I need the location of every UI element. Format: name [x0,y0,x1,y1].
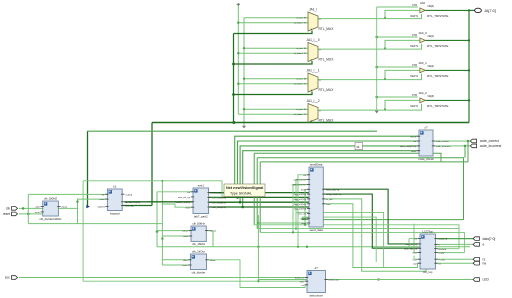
module debouncer [295,266,339,297]
svg-text:RTL_TRISTATE: RTL_TRISTATE [427,44,448,48]
wire: clk_divider2 clkout run [207,260,308,288]
svg-text:reset: reset [183,264,188,267]
svg-text:data[7:0]: data[7:0] [439,238,448,241]
wire: srst1 num_out0 to code_check fan line 1 [209,136,419,192]
wire: code_incorrect vertical loop x=465 [464,146,466,158]
net stub cap at top of x=238.3 [237,3,240,6]
wire: JA net vertical bus x=469 [468,10,470,122]
svg-text:code_correct: code_correct [293,179,306,182]
wire: medium horizontal y=131.2 (bus to keypad new_val) [88,130,378,132]
wire: tristate1 output to JA bus [425,9,469,11]
svg-text:lab7_part2: lab7_part2 [194,214,208,218]
svg-text:delay_out[21:0]: delay_out[21:0] [326,193,341,196]
svg-text:data_in[7:0]: data_in[7:0] [406,243,418,246]
wire: mux1 output to tristate1 OE [318,14,422,19]
wire: keypad new_sig output to x=152 riser [122,205,152,207]
wire: reset feed to sendData reset [258,222,309,224]
module code_check [400,125,451,160]
module clk_16khz [182,221,216,246]
gray continuation arrow at (244,126) [242,126,246,129]
wire: JA bus to port JA[7:0] [469,9,475,11]
wire: to clk_divider2 clkin [162,259,190,261]
svg-text:JA[7:0]: JA[7:0] [484,9,496,13]
wire: tristate1 data input jog at x=385 [385,10,420,17]
wire: trunk x=162.4 [161,181,163,265]
wire: net vertical feeder x=238.3 (mux lower inputs) [237,5,239,114]
svg-text:JA1_i__1: JA1_i__1 [306,69,320,73]
wire: riser x=77.5 [77,199,79,224]
wire: y=194.4 to keypad clk [28,193,107,195]
wire: y=223.6 reset run to east [28,223,162,225]
mux RTL_MUX JA1_i__2 [294,99,334,122]
wire: lcd reset riser (approx) [413,224,415,253]
svg-text:ready: ready [301,217,307,220]
wire: mux3 upper input I0 [244,78,308,80]
wire: fan vertical 7 [259,162,261,233]
svg-text:io_out: io_out [297,47,303,50]
svg-text:srst1: srst1 [198,183,205,187]
input port clk [6,207,18,211]
wire: lcd ready stub [436,252,465,254]
svg-text:key_in4[3:0]: key_in4[3:0] [294,209,306,211]
wire: tristate2 output to JA bus [425,39,469,41]
wire: CTRL distribution vertical x=376.7 [376,7,378,111]
svg-text:clkin: clkin [35,207,40,209]
wire: lcd reset stub [414,252,420,254]
wire: clk_16khz clk_out stub [206,230,213,232]
svg-text:OE[3]: OE[3] [428,95,435,98]
wire: net vertical feeder x=244 (mux upper inputs) [243,18,245,126]
svg-text:OE[2]: OE[2] [428,65,435,68]
wire: lcd e to port [436,243,474,245]
svg-text:io_out: io_out [297,78,303,81]
svg-text:clk 100HZ: clk 100HZ [44,196,57,200]
svg-text:finish: finish [301,189,307,191]
svg-text:reset: reset [100,198,105,201]
module clk_divider100Hz [35,196,68,220]
svg-text:io_out: io_out [297,108,303,111]
wire stub [162,264,175,266]
wire: tristate3 data input jog at x=385 [385,70,420,78]
blue continuation arrow into keypad new_val input [86,205,90,209]
svg-text:O: O [319,19,321,21]
wire: fan line 6 to ready loop riser [257,158,463,220]
wire: lcd data[7:0] to port [436,238,474,240]
wire: tristate4 CTRL input [377,96,418,98]
svg-text:clk_1kOut: clk_1kOut [192,249,205,253]
svg-text:LED: LED [483,278,490,282]
wire: y=180.8 run [83,180,222,182]
svg-text:OE[0]: OE[0] [428,5,435,8]
wire: mux2 upper input I0 [244,47,308,49]
wire: srst1 new_val_sig drop [193,181,222,197]
output port LED [473,278,489,282]
svg-text:num_out3[3:0]: num_out3[3:0] [212,206,226,209]
wire: lcd finished loop run y=224.8 [254,225,459,249]
wire: long clk run y=246.7 [157,246,470,248]
wire: reset port to clk_divider reset [19,213,43,215]
svg-text:16: 16 [356,145,360,149]
wire: srst1 num_out3 to code_check fan line 4 [209,151,419,207]
svg-text:code_incorrect: code_incorrect [480,144,502,148]
svg-text:button_in: button_in [295,277,305,280]
svg-text:code_check: code_check [418,157,434,161]
wire: loop back to sendData code_correct input [296,180,309,229]
svg-text:JA0_2: JA0_2 [418,91,427,95]
output port rs [473,257,485,261]
wire: lcd rs_out to rs port [436,258,474,260]
wire: LED long net y=279.5 [258,279,473,281]
svg-text:RTL_TRISTATE: RTL_TRISTATE [427,14,448,18]
svg-text:num_out[3:0]: num_out[3:0] [212,192,225,195]
wire: mux2 output to tristate2 OE [318,44,422,49]
svg-text:key_in3[3:0]: key_in3[3:0] [294,204,306,206]
tristate RTL_TRISTATE JA0 [410,1,448,18]
svg-text:reset: reset [301,222,306,225]
svg-text:num_out1[3:0]: num_out1[3:0] [212,197,226,200]
wire: keypad decodeOut bus to srst1 number_in [124,201,193,203]
bus width annotation 16 on input_code net [355,143,363,150]
wire: ready loopback run y=232.4 [260,232,464,252]
svg-text:key_in1[3:0]: key_in1[3:0] [294,194,306,196]
svg-text:RTL_MUX: RTL_MUX [319,118,335,122]
svg-text:vis[3:0]: vis[3:0] [125,194,132,196]
output port data[7:0] [473,237,495,241]
svg-text:LCDTop: LCDTop [423,229,434,233]
wire: clk port to clk_divider clkin [19,207,43,209]
wire: fan vertical 5 [253,153,255,225]
svg-text:send_data: send_data [309,228,323,232]
tristate RTL_TRISTATE JA0_1 [410,61,448,78]
wire: srst1 reset input [162,204,193,207]
wire: left trunk x=83.1 [82,181,84,281]
svg-text:CTR: CTR [412,64,417,67]
wire: mux3 select S (dark bus) [234,92,313,95]
wire: dark vertical x=87.5 to keypad new_val input [87,131,89,206]
svg-text:rst: rst [302,284,305,287]
wire: code_check code_correct to port [433,140,470,142]
wire: srst1 num_out2 bus to sendData key_in2 [209,201,309,203]
wire: long run y=228.6 [257,228,459,230]
svg-text:io_out: io_out [297,17,303,20]
wire: lcd clk to y=246.7 run [408,239,410,247]
svg-text:clk_divider100Hz: clk_divider100Hz [40,217,63,221]
wire: srst1 num_out2 to code_check fan line 3 [209,146,419,202]
wire: loop line y=217.1 [302,217,376,262]
wire: srst1 num_out3 bus to sendData key_in3 [209,206,309,208]
svg-text:code_correct: code_correct [436,140,449,143]
svg-text:data[7:0]: data[7:0] [483,237,496,241]
svg-text:clk: clk [6,207,10,211]
svg-text:reset: reset [412,252,417,255]
tristate RTL_TRISTATE JA0_0 [410,31,448,48]
svg-text:reset: reset [183,235,188,238]
wire: mux1 lower input I1 [238,22,308,24]
wire: srst1 clk feed [157,191,193,193]
svg-text:io_select: io_select [294,22,303,25]
svg-text:rs_in: rs_in [412,258,418,261]
wire: lcd rw to rw port [436,262,474,264]
svg-text:clk_divider: clk_divider [192,270,206,274]
svg-text:code_incorrect: code_incorrect [292,184,307,187]
svg-text:num_out2[3:0]: num_out2[3:0] [212,201,226,204]
wire: mux1 select S (dark bus) [234,31,313,34]
wire: JA net horizontal y=122.5 spanning to keypad region [152,122,469,124]
svg-text:code_incorrect: code_incorrect [436,145,451,148]
wire: srst1 num_out1 bus to sendData key_in1 [209,196,309,198]
svg-text:number_in[3:0]: number_in[3:0] [175,201,190,204]
wire: mux2 lower input I1 [238,52,308,54]
svg-text:clkin: clkin [300,281,305,283]
output port e [473,243,484,247]
svg-text:ready: ready [439,252,445,255]
svg-text:keep_in[15:0]: keep_in[15:0] [404,248,418,250]
wire: lcd rs_in stub [414,258,420,260]
wire: srst1 num_out0 bus to sendData key_in0 [209,192,309,194]
wire: soc to debouncer button_in [19,277,307,279]
tooltip Net newVisionSignal [224,184,265,197]
wire: mux3 lower input I1 [238,83,308,85]
wire: loop back to sendData ready input [302,218,464,219]
wire: tristate4 output to JA bus [425,99,469,101]
svg-text:O: O [319,50,321,52]
wire: loop line y=212.4 [296,212,384,267]
wire: trunk x=258.4 [257,215,259,281]
svg-text:reset: reset [411,150,416,153]
svg-text:decodeOut[3:0]: decodeOut[3:0] [125,201,140,204]
module lcd_top [404,229,448,273]
wire: clk feed to sendData clk [298,175,309,247]
svg-text:Net newVisionSignal: Net newVisionSignal [226,186,263,190]
svg-text:OEP N: OEP N [410,15,418,18]
output port code_correct [470,139,499,143]
mux RTL_MUX JA1_i__1 [294,69,334,92]
svg-text:keypad: keypad [110,211,120,215]
wire: fan line 5 loop [254,153,441,162]
svg-text:io_select: io_select [294,83,303,86]
wire: mux1 upper input I0 [244,17,308,19]
wire: sendData delay_out bus to lcd keep_in [323,194,420,248]
wire: tristate3 output to JA bus [425,69,469,71]
svg-text:input_code[15:0]: input_code[15:0] [400,145,417,148]
svg-text:JA1_i__2: JA1_i__2 [306,99,320,103]
svg-text:val[3:0]: val[3:0] [97,207,104,209]
wire: fan line 7 / code_correct loop horizontal [260,161,468,163]
inout port JA[7:0] [475,8,496,13]
input port soc [5,276,18,280]
wire: clk_divider clkout to keypad reset row [58,199,107,208]
svg-text:e: e [483,243,485,247]
svg-text:clkin: clkin [183,260,188,262]
svg-text:Type SIGNAL: Type SIGNAL [230,192,252,196]
svg-text:clk 16kHz: clk 16kHz [192,221,205,225]
svg-text:JA0_0: JA0_0 [418,31,427,35]
wire: mux4 upper input I0 [244,108,308,110]
wire: mux select vertical bus x=233.5 (dark) [233,34,235,123]
module keypad k1 [97,184,140,215]
mux RTL_MUX JA1_i [294,8,334,31]
svg-text:new_sig: new_sig [125,206,134,208]
svg-text:new_val: new_val [298,214,307,216]
wire: tristate1 CTRL input [377,6,418,8]
svg-text:code_correct: code_correct [480,139,499,143]
mux RTL_MUX JA1_i__0 [294,38,334,61]
svg-text:JA0_1: JA0_1 [418,61,427,65]
wire: to clk_16khz clk_in [157,230,191,232]
svg-text:reset: reset [3,212,10,216]
wire: rs_in stub riser [413,256,415,260]
svg-text:clk_out: clk_out [209,230,216,233]
svg-text:data_out[7:0]: data_out[7:0] [326,188,339,191]
wire: dark vertical x=152 down to keypad new_sig [151,123,153,206]
tristate RTL_TRISTATE JA0_2 [410,91,448,108]
wire: srst1 num_out1 to code_check fan line 2 [209,141,419,197]
svg-text:start: start [413,262,418,265]
svg-text:clk_in: clk_in [182,231,188,233]
svg-text:CTR: CTR [412,4,417,7]
wire: tristate3 CTRL input [377,66,418,68]
svg-text:CTR: CTR [412,34,417,37]
svg-text:JA1_i__0: JA1_i__0 [306,38,320,42]
svg-text:sendData: sendData [310,162,323,166]
svg-text:d?: d? [315,266,319,270]
svg-text:finished: finished [439,249,447,251]
wire: to clk_16khz reset [162,235,191,237]
svg-text:clk_16khz: clk_16khz [192,242,205,246]
wire: y=281.2 run to debouncer clkin [83,280,307,282]
wire: lcd clk stub west [409,238,420,240]
svg-text:RTL_MUX: RTL_MUX [319,88,335,92]
svg-text:button_out: button_out [329,279,340,282]
output port code_incorrect [470,144,501,148]
svg-text:RTL_TRISTATE: RTL_TRISTATE [427,74,448,78]
wire: code_check code_incorrect to port [433,145,470,147]
input port reset [3,212,18,216]
svg-text:RTL_MUX: RTL_MUX [319,57,335,61]
output port rw [473,261,486,265]
svg-text:O: O [319,80,321,82]
module clk_divider (1k) [183,249,216,274]
wire: mux4 output to tristate4 OE [318,104,422,110]
module lab7_part2 srst1 [175,183,226,218]
wire: tristate4 data input jog at x=385 [385,100,420,109]
svg-text:clkout: clkout [210,259,216,262]
wire: fan vertical 6 [256,158,258,229]
svg-text:reset: reset [35,211,40,214]
wire: sendData data_out bus to lcd data_in [323,189,420,244]
svg-text:JA1_i: JA1_i [309,8,317,12]
svg-text:OEP N: OEP N [410,105,418,108]
svg-text:rs_out: rs_out [439,258,445,261]
wire: sendData start to lcd start [323,204,420,268]
svg-text:check: check [410,136,417,138]
wire: debouncer button_out joins LED net [326,279,474,281]
svg-text:O: O [319,111,321,113]
wire: reset riser x=28.3 [27,194,29,223]
wire: clk_16khz out to y=246.7 run [212,231,214,247]
svg-text:c?: c? [424,125,427,129]
svg-text:reset: reset [185,206,190,209]
module send_data sendData [292,162,342,231]
wire: mux4 lower input I1 [238,113,308,115]
svg-text:OEP N: OEP N [410,75,418,78]
svg-text:key_in2[3:0]: key_in2[3:0] [294,199,306,201]
svg-text:debouncer: debouncer [309,293,323,297]
junction at (233.9,122.5) [232,121,235,124]
wire: mux3 output to tristate3 OE [318,74,422,80]
svg-text:k1: k1 [113,184,116,188]
wire: feed to sendData code_incorrect [293,185,309,233]
svg-text:new_val_sig: new_val_sig [178,197,191,199]
svg-text:RTL_TRISTATE: RTL_TRISTATE [427,104,448,108]
svg-text:CTR: CTR [412,94,417,97]
wire: mux2 select S (dark bus) [234,61,313,64]
wire: sendData rs_out bottom loop [323,199,426,271]
wire: branch to sendData finish [305,189,309,225]
wire: trunk x=157 [156,192,158,247]
wire: code_correct vertical loop down x=468 [467,141,469,162]
svg-text:clkout: clkout [61,206,67,209]
svg-text:io_select: io_select [294,52,303,55]
junction on code_incorrect net [464,145,467,148]
svg-text:JA0: JA0 [420,1,426,5]
wire: clk_divider2 reset input [162,264,190,266]
svg-text:OEP N: OEP N [410,45,418,48]
svg-text:lcd_top: lcd_top [423,270,433,274]
svg-text:rw: rw [483,261,487,265]
svg-text:OE[1]: OE[1] [428,35,435,38]
svg-text:RTL_MUX: RTL_MUX [319,27,335,31]
gray continuation arrow at (377,112) [375,111,379,114]
svg-text:soc: soc [5,276,10,280]
svg-text:start: start [326,203,331,206]
junction on code_correct net [467,140,470,143]
wire: tristate2 CTRL input [377,36,418,38]
svg-text:io_select: io_select [294,113,303,116]
wire: tristate2 data input jog at x=385 [385,40,420,48]
svg-text:rs_out: rs_out [326,198,332,201]
